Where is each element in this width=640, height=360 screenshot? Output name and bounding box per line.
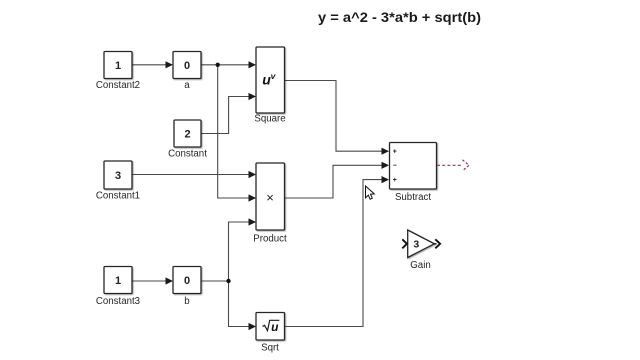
svg-text:Constant3: Constant3 [96, 296, 140, 307]
svg-text:Sqrt: Sqrt [261, 343, 279, 354]
svg-text:Product: Product [253, 234, 287, 245]
svg-text:0: 0 [184, 275, 190, 287]
svg-text:2: 2 [184, 128, 190, 140]
svg-text:1: 1 [115, 275, 121, 287]
svg-text:Square: Square [254, 114, 285, 125]
svg-text:Constant: Constant [168, 149, 207, 160]
svg-text:3: 3 [115, 170, 121, 182]
svg-text:b: b [184, 296, 189, 307]
svg-text:3: 3 [413, 239, 419, 251]
svg-text:1: 1 [115, 60, 121, 72]
svg-text:Constant2: Constant2 [96, 80, 140, 91]
svg-text:Constant1: Constant1 [96, 191, 140, 202]
svg-text:+: + [393, 149, 397, 156]
svg-text:u: u [271, 320, 279, 334]
svg-text:+: + [393, 177, 397, 184]
svg-text:−: − [393, 163, 397, 170]
svg-text:Subtract: Subtract [395, 192, 431, 203]
svg-text:a: a [184, 80, 190, 91]
svg-text:0: 0 [184, 60, 190, 72]
svg-text:y = a^2 - 3*a*b + sqrt(b): y = a^2 - 3*a*b + sqrt(b) [318, 10, 481, 25]
svg-text:×: × [266, 190, 274, 205]
svg-text:Gain: Gain [410, 260, 430, 271]
